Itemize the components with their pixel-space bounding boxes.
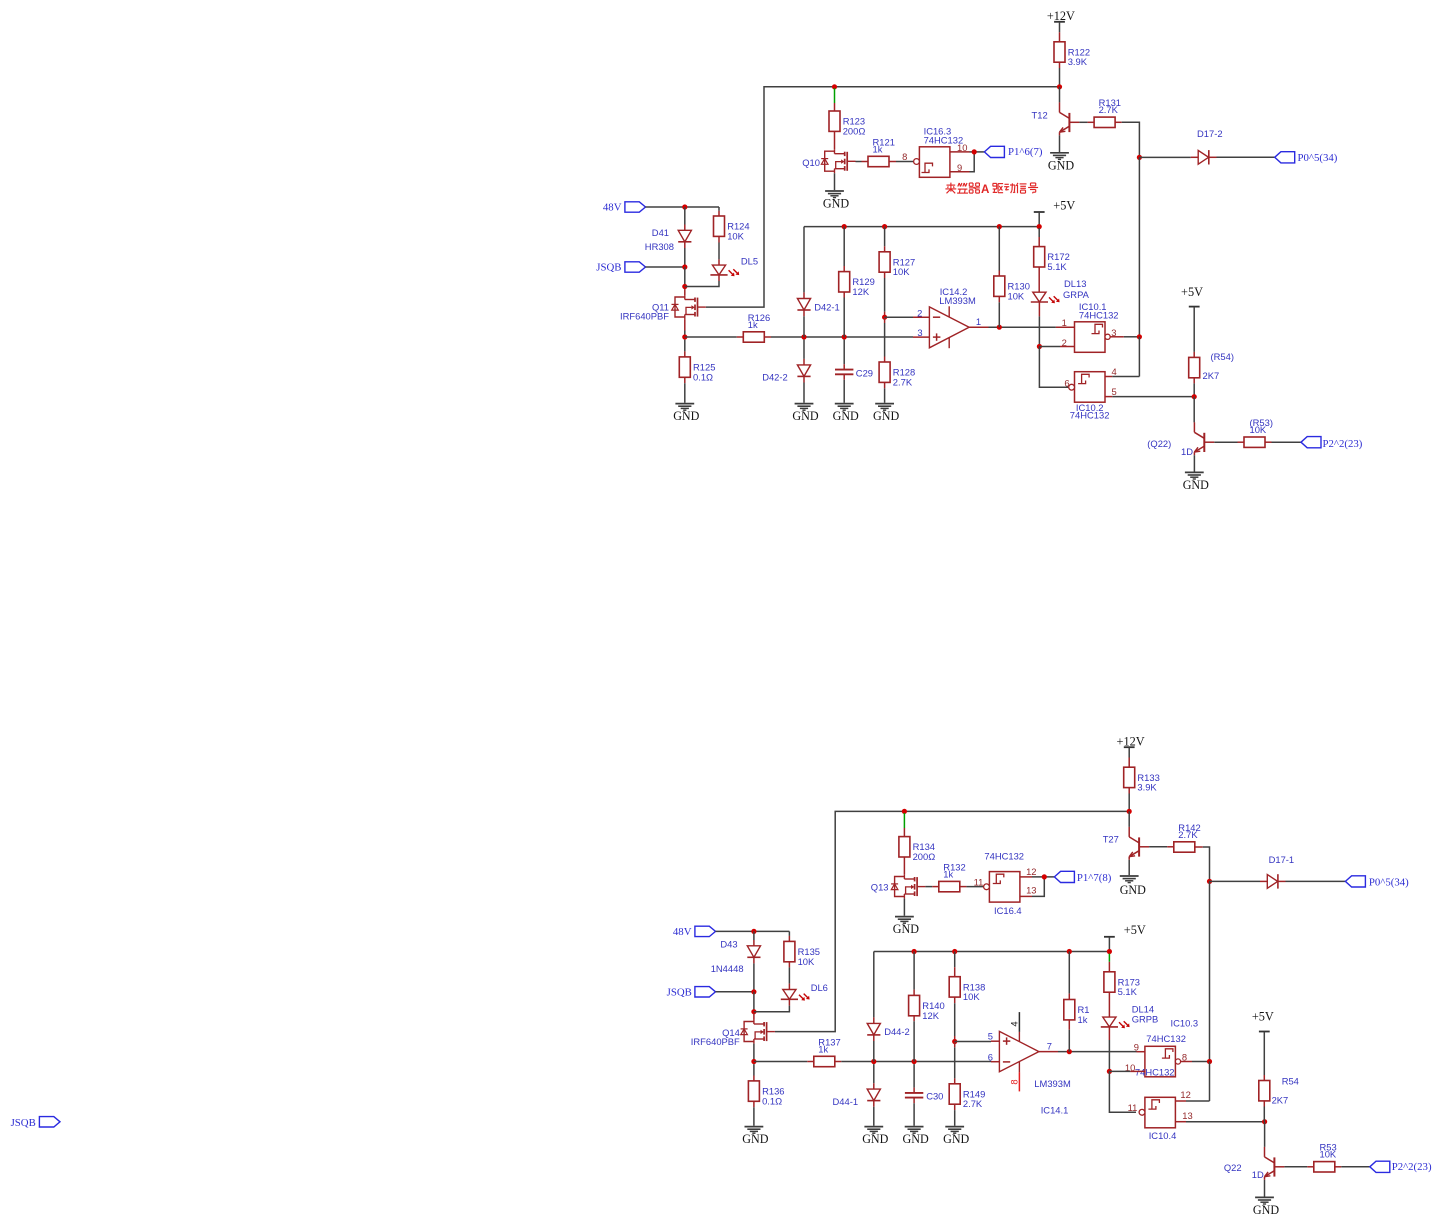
resistor R1 [1064, 1000, 1090, 1025]
resistor R53b [1314, 1142, 1337, 1172]
connector 48V [673, 926, 716, 938]
wire [1193, 383, 1195, 396]
wire [1192, 1061, 1210, 1063]
junction [1137, 334, 1142, 339]
wire [1105, 396, 1112, 398]
svg-text:1D: 1D [1252, 1169, 1264, 1180]
wire [1020, 876, 1032, 878]
svg-text:10K: 10K [1320, 1149, 1337, 1160]
resistor R54 [1259, 1075, 1299, 1105]
svg-text:11: 11 [1128, 1102, 1138, 1113]
wire [803, 376, 805, 382]
LED DL14 [1101, 1017, 1130, 1028]
resistor R124 [714, 216, 750, 241]
wire [903, 857, 905, 875]
junction [1137, 155, 1142, 160]
wire [1193, 378, 1195, 384]
wire [1264, 1122, 1266, 1147]
resistor R137 [814, 1036, 841, 1066]
svg-text:Q10: Q10 [802, 157, 820, 168]
diode D17-1 [1267, 874, 1278, 888]
svg-text:GND: GND [1183, 478, 1209, 492]
wire [716, 991, 754, 993]
wire [843, 374, 845, 380]
resistor R128 [879, 362, 915, 387]
junction [751, 1009, 756, 1014]
wire [998, 296, 1000, 302]
junction [682, 204, 687, 209]
wire [737, 336, 744, 338]
svg-text:0.1Ω: 0.1Ω [693, 371, 713, 382]
diode D17-2 [1198, 150, 1209, 164]
resistor R54 [1189, 351, 1234, 381]
connector JSQB [667, 987, 716, 999]
ground [833, 404, 859, 424]
junction [882, 315, 887, 320]
wire [1138, 337, 1140, 377]
wire [954, 1047, 956, 1078]
svg-text:2K7: 2K7 [1203, 370, 1220, 381]
wire [718, 243, 720, 260]
resistor R135 [784, 941, 820, 966]
wire [954, 1110, 956, 1126]
wire [684, 351, 686, 357]
svg-text:D17-2: D17-2 [1197, 128, 1223, 139]
wire [1128, 811, 1130, 827]
junction [842, 224, 847, 229]
connector P2^2(23) [1370, 1161, 1432, 1173]
svg-text:4: 4 [1112, 366, 1117, 377]
svg-text:DL6: DL6 [811, 982, 828, 993]
wire [1059, 62, 1061, 68]
wire [1284, 1166, 1307, 1168]
wire [1175, 1100, 1186, 1102]
wire [843, 298, 845, 338]
wire [753, 931, 755, 940]
junction [912, 1059, 917, 1064]
ground [792, 404, 818, 424]
wire [913, 952, 915, 990]
junction [1037, 344, 1042, 349]
wire [1175, 1121, 1186, 1123]
wire [1112, 396, 1194, 398]
diode D43 [747, 946, 760, 958]
wire [684, 331, 686, 338]
svg-text:GND: GND [673, 409, 699, 423]
wire [753, 940, 755, 946]
wire [754, 1006, 790, 1012]
wire [1263, 1101, 1265, 1107]
svg-text:1k: 1k [873, 143, 883, 154]
svg-text:6: 6 [988, 1052, 993, 1063]
wire [718, 275, 720, 281]
junction [997, 325, 1002, 330]
diode D44-1 [867, 1089, 880, 1101]
wire [1068, 1020, 1070, 1030]
wire [1124, 336, 1140, 338]
junction [682, 284, 687, 289]
wire [684, 383, 686, 403]
wire [913, 1016, 915, 1021]
wire [753, 1101, 755, 1107]
wire [885, 316, 913, 318]
wire [884, 312, 886, 318]
wire [1109, 1070, 1130, 1072]
junction [1057, 84, 1062, 89]
wire [1108, 992, 1110, 1017]
wire [646, 206, 720, 208]
wire [913, 316, 929, 318]
wire [954, 997, 956, 1003]
junction [801, 334, 806, 339]
junction [682, 334, 687, 339]
wire [1110, 336, 1124, 338]
wire [954, 1042, 956, 1048]
MOSFET Q14 [691, 1020, 775, 1047]
wire green [1108, 954, 1110, 962]
wire [1263, 1107, 1265, 1122]
ground [742, 1127, 768, 1147]
wire [1193, 307, 1195, 352]
ground [873, 404, 899, 424]
MOSFET Q13 [871, 875, 926, 899]
wire [1038, 237, 1040, 247]
resistor R123 [829, 111, 865, 136]
svg-text:+5V: +5V [1053, 198, 1075, 212]
wire [684, 225, 686, 231]
resistor R173 [1104, 972, 1140, 997]
svg-text:GRPB: GRPB [1132, 1013, 1159, 1024]
wire [954, 952, 956, 968]
wire [903, 828, 905, 837]
svg-text:4: 4 [1008, 1021, 1019, 1026]
svg-text:GRPA: GRPA [1063, 289, 1090, 300]
wire [834, 173, 836, 190]
svg-text:P0^5(34): P0^5(34) [1298, 152, 1338, 164]
junction [952, 1039, 957, 1044]
resistor R140 [909, 995, 945, 1020]
wire [1032, 877, 1044, 897]
svg-text:IC16.4: IC16.4 [994, 905, 1022, 916]
svg-text:GND: GND [893, 922, 919, 936]
wire [1068, 1030, 1070, 1052]
svg-text:74HC132: 74HC132 [1070, 410, 1110, 421]
junction [1107, 1069, 1112, 1074]
svg-text:5: 5 [988, 1031, 993, 1042]
LED DL5 [710, 265, 739, 276]
ground [943, 1127, 969, 1147]
connector P0^5(34) [1275, 152, 1338, 165]
svg-text:200Ω: 200Ω [913, 851, 936, 862]
svg-text:2.7K: 2.7K [963, 1098, 983, 1109]
ground [1120, 876, 1146, 897]
wire [950, 151, 970, 153]
ground [823, 191, 849, 211]
resistor R122 [1054, 42, 1090, 67]
svg-text:9: 9 [957, 162, 962, 173]
wire [954, 1036, 956, 1042]
svg-text:IC10.3: IC10.3 [1171, 1017, 1199, 1028]
wire [646, 266, 685, 268]
wire [1105, 376, 1112, 378]
diode D44-2 [867, 1023, 880, 1035]
diode D42-2 [797, 365, 810, 377]
wire [803, 383, 805, 403]
svg-text:GND: GND [1120, 883, 1146, 897]
wire [873, 1035, 875, 1041]
capacitor C29 [835, 370, 853, 375]
svg-text:IC14.1: IC14.1 [1041, 1105, 1069, 1116]
svg-text:10K: 10K [727, 230, 744, 241]
wire [1020, 895, 1032, 897]
wire [1191, 156, 1198, 158]
wire [970, 152, 975, 172]
wire [843, 227, 845, 266]
wire [1307, 1166, 1314, 1168]
diode D42-1 [797, 299, 810, 311]
svg-text:D42-1: D42-1 [814, 302, 840, 313]
connector JSQB [596, 262, 645, 274]
wire [1278, 880, 1286, 882]
op-amp IC14.2 [917, 286, 981, 348]
wire [1058, 1051, 1137, 1053]
wire [1038, 302, 1040, 316]
wire [1068, 952, 1070, 994]
wire [1214, 441, 1237, 443]
wire [753, 992, 755, 1012]
gate IC10.4 [1139, 1097, 1176, 1141]
wire [685, 336, 737, 338]
power +5V [1034, 198, 1076, 212]
wire [841, 1061, 991, 1063]
wire [1209, 881, 1211, 1061]
wire [954, 1104, 956, 1110]
wire [788, 962, 790, 968]
wire [1193, 397, 1195, 423]
wire [788, 936, 790, 942]
svg-text:5.1K: 5.1K [1118, 986, 1138, 997]
wire [954, 1078, 956, 1083]
svg-text:IRF640PBF: IRF640PBF [691, 1036, 740, 1047]
svg-text:D17-1: D17-1 [1269, 854, 1295, 865]
wire [684, 242, 686, 248]
wire [873, 1107, 875, 1126]
power +5V Q22 [1252, 1009, 1274, 1031]
svg-text:GND: GND [823, 197, 849, 211]
wire [998, 271, 1000, 277]
junction [882, 224, 887, 229]
wire [874, 951, 1110, 953]
svg-text:7: 7 [1047, 1041, 1052, 1052]
svg-text:IRF640PBF: IRF640PBF [620, 311, 669, 322]
wire [1108, 937, 1110, 952]
junction [952, 949, 957, 954]
svg-text:DL13: DL13 [1064, 278, 1086, 289]
svg-text:DL5: DL5 [741, 255, 758, 266]
wire [884, 323, 886, 357]
resistor R127 [879, 252, 915, 277]
wire [1108, 962, 1110, 972]
transistor T27 [1103, 827, 1149, 860]
svg-text:GND: GND [943, 1132, 969, 1146]
svg-text:11: 11 [974, 876, 984, 887]
svg-text:1N4448: 1N4448 [711, 963, 744, 974]
wire [1260, 880, 1267, 882]
wire [1038, 316, 1040, 346]
LED DL6 [781, 990, 810, 1001]
svg-text:D44-2: D44-2 [884, 1026, 910, 1037]
junction [1207, 879, 1212, 884]
MOSFET Q10 [802, 149, 855, 173]
wire [1138, 157, 1140, 336]
resistor R126 [743, 312, 770, 342]
wire [1210, 880, 1261, 882]
wire [1060, 346, 1075, 348]
wire [1264, 1180, 1266, 1197]
ground [1048, 153, 1074, 173]
wire [807, 1061, 814, 1063]
op-amp IC14.1 [988, 1012, 1071, 1116]
svg-text:JSQB: JSQB [11, 1117, 36, 1129]
wire [1265, 441, 1272, 443]
junction [1067, 949, 1072, 954]
label D41 [645, 227, 674, 252]
svg-text:8: 8 [1009, 1079, 1020, 1084]
svg-text:1k: 1k [943, 868, 953, 879]
svg-text:LM393M: LM393M [1034, 1078, 1071, 1089]
wire [873, 952, 875, 1018]
wire [1088, 121, 1095, 123]
wire [1079, 121, 1087, 123]
wire [684, 207, 686, 225]
svg-text:P0^5(34): P0^5(34) [1369, 876, 1409, 888]
wire [753, 957, 755, 963]
wire [835, 1061, 842, 1063]
svg-text:D43: D43 [720, 939, 737, 950]
wire [884, 278, 886, 312]
svg-text:12: 12 [1180, 1089, 1190, 1100]
wire [788, 931, 790, 936]
svg-text:GND: GND [792, 409, 818, 423]
wire [884, 317, 886, 323]
wire [718, 236, 720, 242]
wire [753, 1076, 755, 1081]
svg-text:JSQB: JSQB [667, 987, 692, 999]
gate IC10.1 [1075, 301, 1119, 352]
svg-text:GND: GND [742, 1132, 768, 1146]
svg-text:1: 1 [1062, 317, 1067, 328]
wire [753, 963, 755, 991]
power +12V bottom [1117, 734, 1145, 748]
svg-text:T27: T27 [1103, 833, 1119, 844]
wire [889, 161, 896, 163]
resistor R125 [679, 357, 715, 382]
wire [1130, 1070, 1145, 1072]
svg-text:Q13: Q13 [871, 882, 889, 893]
wire [1186, 1100, 1210, 1102]
wire [753, 1013, 755, 1020]
junction [1067, 1049, 1072, 1054]
wire [1128, 794, 1130, 812]
transistor Q22 [1147, 422, 1214, 457]
wire [775, 811, 1129, 1031]
wire [873, 1017, 875, 1023]
svg-text:C30: C30 [926, 1090, 943, 1101]
svg-text:2K7: 2K7 [1272, 1094, 1289, 1105]
wire [873, 1101, 875, 1107]
wire [1167, 846, 1174, 848]
wire [1238, 441, 1245, 443]
svg-text:JSQB: JSQB [596, 262, 621, 274]
svg-text:IC10.4: IC10.4 [1149, 1130, 1177, 1141]
transistor Q22 [1224, 1147, 1285, 1180]
wire [803, 316, 805, 337]
ground [673, 404, 699, 424]
svg-text:74HC132: 74HC132 [984, 851, 1024, 862]
wire [1038, 228, 1040, 237]
junction [1127, 809, 1132, 814]
svg-text:9: 9 [1134, 1042, 1139, 1053]
svg-text:1k: 1k [1078, 1014, 1088, 1025]
wire [991, 1061, 999, 1063]
junction [972, 149, 977, 154]
svg-text:3.9K: 3.9K [1068, 56, 1088, 67]
wire [862, 161, 869, 163]
wire [1209, 1062, 1211, 1102]
svg-text:0.1Ω: 0.1Ω [762, 1095, 782, 1106]
svg-text:2: 2 [917, 307, 922, 318]
resistor R149 [949, 1084, 985, 1109]
wire [803, 340, 805, 359]
wire [1341, 1166, 1370, 1168]
wire [684, 289, 686, 296]
svg-text:10K: 10K [963, 991, 980, 1002]
power +5V [1181, 285, 1203, 306]
svg-text:10: 10 [957, 142, 967, 153]
wire [1059, 22, 1061, 32]
svg-text:P2^2(23): P2^2(23) [1392, 1161, 1432, 1173]
wire [960, 886, 967, 888]
power +12V [1047, 9, 1075, 23]
wire [1039, 1051, 1058, 1053]
resistor R53t [1244, 417, 1273, 447]
ground [893, 917, 919, 937]
wire [843, 340, 845, 365]
wire [1112, 376, 1139, 378]
connector P1^6(7) [984, 146, 1042, 158]
svg-text:1: 1 [976, 316, 981, 327]
junction [751, 989, 756, 994]
wire [718, 259, 720, 265]
wire [1059, 68, 1061, 87]
wire [1038, 212, 1040, 226]
wire [1286, 880, 1346, 882]
svg-text:HR308: HR308 [645, 241, 674, 252]
wire [843, 364, 845, 369]
connector P0^5(34) [1345, 876, 1409, 889]
label DL14 [1132, 1003, 1159, 1024]
resistor R132 [939, 861, 966, 891]
svg-text:D41: D41 [652, 227, 669, 238]
svg-text:12K: 12K [922, 1010, 939, 1021]
wire [913, 1103, 915, 1126]
wire [685, 281, 719, 287]
svg-text:5.1K: 5.1K [1047, 261, 1067, 272]
wire [1038, 267, 1040, 292]
wire [1137, 1051, 1145, 1053]
wire [998, 302, 1000, 327]
connector P2^2(23) [1301, 437, 1363, 450]
